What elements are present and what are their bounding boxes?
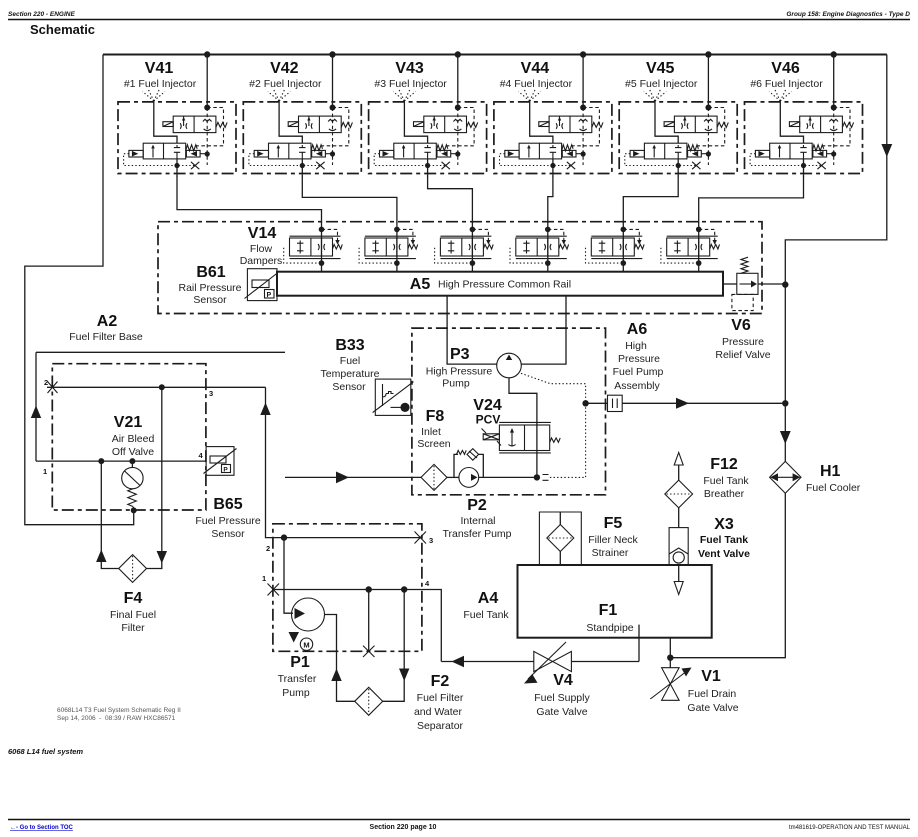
- svg-text:F2: F2: [431, 673, 450, 690]
- B65 fuel pressure sensor: [195, 447, 261, 540]
- svg-text:Dampers: Dampers: [240, 255, 283, 267]
- wire: V24 to junction: [536, 451, 538, 478]
- svg-text:Fuel Tank: Fuel Tank: [700, 534, 748, 546]
- svg-text:PCV: PCV: [476, 413, 501, 427]
- svg-text:A5: A5: [410, 276, 431, 293]
- junction dot P1 inlet: [281, 534, 287, 540]
- fuel injector V45: [619, 55, 737, 177]
- junction dots on suction line: [366, 586, 372, 592]
- svg-text:F8: F8: [426, 408, 445, 425]
- svg-text:Fuel Drain: Fuel Drain: [688, 688, 737, 700]
- svg-text:Final Fuel: Final Fuel: [110, 609, 156, 621]
- wire: junction to tank bottom: [669, 638, 671, 658]
- svg-text:F12: F12: [710, 456, 738, 473]
- svg-text:High Pressure: High Pressure: [426, 366, 493, 378]
- svg-text:V43: V43: [395, 60, 424, 77]
- svg-text:V14: V14: [248, 225, 277, 242]
- svg-text:Sep 14, 2006 - 08:39 / RAW: Sep 14, 2006 - 08:39 / RAW HXC86571: [57, 715, 176, 722]
- F5 filler neck strainer: [539, 512, 638, 565]
- svg-text:V44: V44: [521, 60, 550, 77]
- svg-text:Gate Valve: Gate Valve: [536, 706, 587, 718]
- svg-text:A6: A6: [627, 321, 648, 338]
- svg-text:Internal: Internal: [460, 515, 495, 527]
- svg-text:V46: V46: [771, 60, 800, 77]
- flow damper V14-4: [510, 222, 569, 272]
- A6 high pressure fuel pump assembly: [412, 321, 664, 495]
- wire: cooler to tank drain junction: [670, 493, 785, 658]
- wire: A2 port3 to P1: [266, 387, 421, 537]
- svg-text:Section 220 page 10: Section 220 page 10: [370, 824, 437, 831]
- svg-text:P1: P1: [290, 654, 310, 671]
- svg-text:#1 Fuel Injector: #1 Fuel Injector: [124, 78, 197, 90]
- svg-text:V41: V41: [145, 60, 174, 77]
- svg-text:F1: F1: [599, 602, 618, 619]
- F12 fuel tank breather: [665, 453, 750, 528]
- svg-text:High: High: [625, 340, 647, 352]
- page header: [8, 11, 910, 37]
- svg-text:Fuel: Fuel: [340, 355, 360, 367]
- svg-text:Air Bleed: Air Bleed: [112, 433, 155, 445]
- svg-text:P: P: [267, 292, 272, 299]
- port 2 crossing: [48, 382, 58, 394]
- junction dot A2 out: [159, 384, 165, 390]
- fuel injector V43: [369, 55, 487, 177]
- wire: A6 outlet to cooler column: [622, 402, 785, 404]
- P3 high pressure pump: [426, 346, 522, 390]
- svg-text:Sensor: Sensor: [193, 294, 227, 306]
- wire: left frame drop to A2: [25, 55, 134, 525]
- svg-text:Filler Neck: Filler Neck: [588, 534, 638, 546]
- V4 fuel supply gate valve: [441, 642, 639, 718]
- svg-text:←- Go to Section TOC: ←- Go to Section TOC: [10, 825, 74, 831]
- svg-text:V6: V6: [731, 317, 751, 334]
- P2 internal transfer pump: [442, 449, 536, 540]
- A6 outlet fitting: [588, 395, 622, 411]
- svg-text:6068L14 T3 Fuel System Schemat: 6068L14 T3 Fuel System Schematic Reg II: [57, 707, 181, 714]
- svg-text:3: 3: [429, 536, 433, 545]
- svg-text:Fuel Tank: Fuel Tank: [703, 475, 749, 487]
- svg-text:#5 Fuel Injector: #5 Fuel Injector: [625, 78, 698, 90]
- svg-text:V1: V1: [701, 668, 721, 685]
- svg-text:6068 L14 fuel system: 6068 L14 fuel system: [8, 747, 83, 756]
- svg-text:Section 220 - ENGINE: Section 220 - ENGINE: [8, 11, 75, 18]
- junction dot bus V44: [580, 51, 586, 57]
- svg-text:Breather: Breather: [704, 488, 745, 500]
- A4 fuel tank: [463, 565, 711, 638]
- junction dot V21 drain: [131, 507, 137, 513]
- svg-text:Filter: Filter: [121, 622, 145, 634]
- B33 fuel temperature sensor: [321, 337, 414, 415]
- wire: filtered fuel out (top): [36, 351, 285, 353]
- wire: suction from tank: [422, 590, 441, 662]
- svg-text:V21: V21: [114, 414, 143, 431]
- junction dots on port4 line: [98, 458, 104, 464]
- junction dot P2 outlet: [534, 474, 540, 480]
- svg-text:Pressure: Pressure: [618, 353, 660, 365]
- junction dot tank drain: [667, 655, 673, 661]
- B61 rail pressure sensor: [178, 264, 280, 306]
- svg-text:Flow: Flow: [250, 243, 273, 255]
- svg-text:Pressure: Pressure: [722, 336, 764, 348]
- svg-text:X3: X3: [714, 516, 734, 533]
- svg-text:#2 Fuel Injector: #2 Fuel Injector: [249, 78, 322, 90]
- P1 transfer pump: [278, 538, 325, 699]
- svg-text:F5: F5: [604, 515, 623, 532]
- A2 fuel filter base: [52, 313, 206, 510]
- F8 inlet screen: [285, 408, 459, 490]
- wire: pump outlet to F2: [325, 615, 355, 702]
- junction dot bus V41: [204, 51, 210, 57]
- svg-text:High Pressure Common Rail: High Pressure Common Rail: [438, 279, 571, 291]
- svg-text:and Water: and Water: [414, 706, 463, 718]
- wire: injector V45 return to flow damper: [623, 176, 678, 223]
- svg-text:Off Valve: Off Valve: [112, 446, 154, 458]
- svg-text:Sensor: Sensor: [211, 528, 245, 540]
- svg-text:Fuel Filter: Fuel Filter: [417, 692, 464, 704]
- svg-text:Pump: Pump: [282, 687, 310, 699]
- svg-text:Pump: Pump: [442, 378, 470, 390]
- svg-text:Separator: Separator: [417, 720, 464, 732]
- rail assembly dashed enclosure: [158, 222, 762, 314]
- svg-text:Transfer Pump: Transfer Pump: [442, 528, 511, 540]
- svg-text:Fuel Supply: Fuel Supply: [534, 692, 590, 704]
- V1 fuel drain gate valve: [650, 658, 738, 714]
- drain plug port on P1 bottom: [368, 590, 370, 652]
- wire: P1 suction line: [273, 589, 422, 591]
- junction dot bus V42: [329, 51, 335, 57]
- flow damper V14-3: [435, 222, 494, 272]
- svg-text:Sensor: Sensor: [332, 381, 366, 393]
- svg-text:H1: H1: [820, 463, 841, 480]
- V21 air bleed off valve: [112, 414, 155, 510]
- F1 standpipe: [586, 602, 639, 662]
- flow damper V14-1: [284, 222, 343, 272]
- svg-text:2: 2: [266, 544, 270, 553]
- svg-text:V4: V4: [553, 672, 573, 689]
- flow damper V14-2: [359, 222, 418, 272]
- svg-text:Fuel Pressure: Fuel Pressure: [195, 515, 261, 527]
- wire: right frame drop to V6 junction: [785, 55, 887, 285]
- svg-text:Relief Valve: Relief Valve: [715, 349, 770, 361]
- wire: F4 riser with up arrow: [35, 352, 37, 461]
- fuel injector V46: [745, 55, 863, 177]
- svg-text:P2: P2: [467, 497, 487, 514]
- wire: return column to cooler: [784, 285, 786, 462]
- wire: port1/4 line: [36, 460, 206, 462]
- svg-text:V24: V24: [473, 397, 502, 414]
- svg-text:V42: V42: [270, 60, 299, 77]
- flow damper V14-6: [661, 222, 720, 272]
- P1 transfer pump enclosure: [273, 524, 422, 652]
- wire: injector V44 return to flow damper: [548, 176, 553, 223]
- svg-text:A4: A4: [478, 590, 499, 607]
- V14 flow dampers label: [240, 225, 283, 267]
- svg-text:Strainer: Strainer: [592, 547, 629, 559]
- wire: injector V46 return to flow damper: [699, 176, 804, 223]
- wire: suction through F2: [383, 590, 405, 702]
- port 3 plug on P1: [415, 532, 427, 544]
- svg-text:F4: F4: [124, 590, 143, 607]
- junction dot bus V43: [455, 51, 461, 57]
- F4 final fuel filter: [96, 387, 167, 634]
- H1 fuel cooler: [770, 461, 861, 494]
- svg-text:Screen: Screen: [417, 438, 450, 450]
- svg-text:P: P: [223, 467, 228, 474]
- junction dot bus V45: [705, 51, 711, 57]
- svg-text:4: 4: [199, 451, 204, 460]
- svg-text:3: 3: [209, 389, 213, 398]
- fuel injector V42: [243, 55, 361, 177]
- svg-text:Schematic: Schematic: [30, 22, 95, 37]
- svg-text:Rail Pressure: Rail Pressure: [178, 282, 241, 294]
- X3 fuel tank vent valve: [669, 516, 750, 595]
- svg-text:Standpipe: Standpipe: [586, 622, 633, 634]
- V24 pump control valve: [473, 397, 560, 453]
- svg-text:Gate Valve: Gate Valve: [687, 702, 738, 714]
- svg-text:B65: B65: [213, 496, 242, 513]
- svg-text:P3: P3: [450, 346, 470, 363]
- wire: P3 outlet to rail: [521, 296, 566, 364]
- svg-text:Transfer: Transfer: [278, 673, 317, 685]
- svg-text:Fuel Pump: Fuel Pump: [613, 366, 664, 378]
- svg-text:B33: B33: [335, 337, 364, 354]
- svg-text:1: 1: [43, 467, 47, 476]
- svg-text:Inlet: Inlet: [421, 426, 441, 438]
- svg-text:Temperature: Temperature: [321, 368, 380, 380]
- wire: P3 to V24: [509, 378, 537, 425]
- wire: rail to P3 inlet: [447, 296, 497, 364]
- svg-text:Assembly: Assembly: [614, 380, 660, 392]
- flow damper V14-5: [586, 222, 645, 272]
- svg-text:M: M: [303, 641, 309, 650]
- svg-text:Fuel Cooler: Fuel Cooler: [806, 482, 861, 494]
- page footer: [8, 707, 911, 831]
- svg-text:Group 158: Engine Diagnostics: Group 158: Engine Diagnostics - Type D: [786, 11, 910, 18]
- svg-text:#6 Fuel Injector: #6 Fuel Injector: [750, 78, 823, 90]
- pilot dotted loop pump case: [521, 373, 586, 477]
- svg-text:Vent Valve: Vent Valve: [698, 548, 750, 560]
- wire: injector V41 return to flow damper: [177, 176, 322, 223]
- F2 fuel filter and water separator: [355, 673, 464, 732]
- svg-text:tm481619-OPERATION AND TEST MA: tm481619-OPERATION AND TEST MANUAL: [789, 825, 911, 831]
- svg-text:Fuel Filter Base: Fuel Filter Base: [69, 331, 143, 343]
- junction dot A6 outlet tap: [582, 400, 588, 406]
- A5 high pressure common rail: [277, 272, 723, 296]
- junction dot bus V46: [831, 51, 837, 57]
- svg-text:A2: A2: [97, 313, 118, 330]
- fuel injector V44: [494, 55, 612, 177]
- svg-text:#4 Fuel Injector: #4 Fuel Injector: [500, 78, 573, 90]
- svg-text:V45: V45: [646, 60, 675, 77]
- wire: port2 line to junction: [47, 386, 266, 388]
- svg-text:Fuel Tank: Fuel Tank: [463, 609, 509, 621]
- port 1 plug: [268, 584, 280, 596]
- fuel injector V41: [118, 55, 236, 177]
- flow arrow down right frame: [881, 144, 892, 157]
- V6 pressure relief valve: [715, 257, 785, 361]
- svg-text:#3 Fuel Injector: #3 Fuel Injector: [374, 78, 447, 90]
- svg-text:B61: B61: [196, 264, 225, 281]
- svg-text:2: 2: [44, 378, 48, 387]
- wire: high pressure supply bus: [103, 54, 887, 56]
- junction dot V6 output: [782, 281, 788, 287]
- wire: injector V42 return to flow damper: [302, 176, 397, 223]
- svg-text:4: 4: [425, 579, 430, 588]
- svg-text:1: 1: [262, 574, 266, 583]
- wire: injector V43 return to flow damper: [428, 176, 473, 223]
